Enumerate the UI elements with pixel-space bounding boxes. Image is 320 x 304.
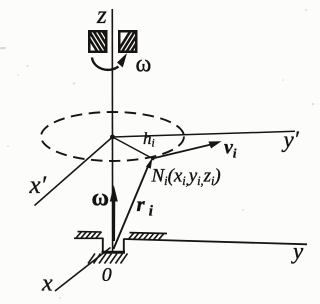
z axis bbox=[111, 9, 113, 252]
dashed circle (ellipse) bbox=[41, 112, 184, 161]
svg-text:vi: vi bbox=[224, 137, 237, 161]
svg-text:x: x bbox=[41, 270, 53, 296]
svg-text:z: z bbox=[96, 2, 107, 29]
y axis bbox=[124, 239, 307, 244]
svg-text:ri: ri bbox=[137, 192, 154, 220]
svg-text:x′: x′ bbox=[29, 172, 47, 199]
center dot bbox=[110, 135, 115, 140]
svg-text:Ni(xi,yi,zi): Ni(xi,yi,zi) bbox=[151, 166, 221, 189]
rotation arc arrow bbox=[92, 58, 119, 70]
svg-text:ω: ω bbox=[136, 52, 152, 78]
bearing block left bbox=[82, 27, 120, 59]
ground line left bbox=[74, 237, 103, 239]
bearing cup right wall bbox=[123, 239, 125, 253]
svg-text:y: y bbox=[291, 239, 304, 264]
ground hatch left bbox=[76, 232, 102, 238]
node N_i bbox=[151, 157, 154, 160]
omega vector (bold, on axis) bbox=[112, 198, 115, 241]
ground hatch right top edge bbox=[130, 232, 168, 235]
h_i segment bbox=[113, 137, 153, 159]
svg-text:hi: hi bbox=[143, 129, 155, 150]
r_i vector bbox=[114, 164, 150, 249]
x' axis bbox=[35, 137, 113, 206]
cup bottom hatch bbox=[88, 254, 128, 264]
svg-text:y′: y′ bbox=[282, 127, 300, 152]
svg-text:0: 0 bbox=[102, 264, 112, 286]
bearing block right bbox=[113, 27, 151, 59]
ground hatch left top edge bbox=[78, 231, 102, 233]
v_i vector bbox=[153, 144, 213, 158]
x axis bbox=[55, 248, 111, 292]
y' axis bbox=[113, 131, 296, 137]
ground hatch right bbox=[129, 233, 165, 240]
svg-text:ω: ω bbox=[92, 186, 110, 212]
bearing cup bottom bbox=[102, 251, 126, 254]
bearing cup left wall bbox=[102, 238, 104, 253]
